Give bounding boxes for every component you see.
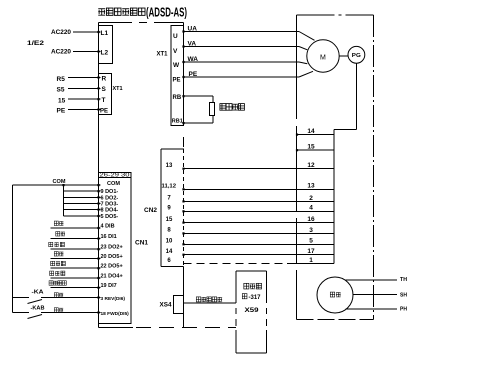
svg-text:S: S: [102, 86, 107, 93]
svg-text:W: W: [173, 62, 180, 69]
svg-text:AC220: AC220: [51, 29, 71, 36]
svg-text:PE: PE: [173, 78, 181, 84]
svg-text:1: 1: [309, 257, 313, 264]
svg-text:4: 4: [309, 205, 313, 212]
svg-text:13: 13: [307, 183, 315, 190]
svg-text:15: 15: [166, 217, 173, 223]
svg-text:3: 3: [309, 227, 313, 234]
svg-text:XT1: XT1: [157, 52, 169, 58]
svg-text:L1: L1: [101, 30, 109, 37]
svg-text:-KA: -KA: [32, 290, 44, 296]
svg-text:PG: PG: [352, 53, 361, 59]
svg-text:PE: PE: [57, 108, 66, 115]
svg-text:XS4: XS4: [160, 303, 173, 309]
svg-text:11,12: 11,12: [162, 184, 177, 190]
svg-text:R5: R5: [57, 76, 66, 83]
svg-text:7 DO3-: 7 DO3-: [101, 202, 119, 208]
svg-text:19 DI7: 19 DI7: [101, 283, 117, 289]
svg-text:L2: L2: [101, 50, 109, 57]
svg-text:16: 16: [307, 216, 315, 223]
svg-text:3 REV(DI6): 3 REV(DI6): [101, 296, 126, 302]
svg-text:X59: X59: [245, 307, 259, 314]
svg-text:2: 2: [309, 195, 313, 202]
svg-text:13: 13: [166, 163, 173, 169]
svg-text:CN1: CN1: [135, 241, 149, 247]
svg-text:UA: UA: [188, 26, 198, 33]
svg-text:U: U: [173, 33, 178, 40]
svg-text:-KAB: -KAB: [31, 306, 45, 312]
svg-text:PE: PE: [100, 109, 108, 115]
svg-text:PH: PH: [400, 307, 407, 313]
svg-text:CN2: CN2: [144, 208, 158, 214]
svg-text:S5: S5: [57, 87, 65, 94]
svg-text:M: M: [320, 55, 326, 62]
svg-text:-317: -317: [249, 295, 262, 301]
svg-text:10: 10: [166, 239, 173, 245]
svg-text:15: 15: [307, 144, 315, 151]
svg-text:18 FWD(DI5): 18 FWD(DI5): [101, 311, 130, 317]
svg-text:PE: PE: [189, 71, 198, 78]
svg-text:16 DI1: 16 DI1: [101, 234, 117, 240]
svg-text:1/E2: 1/E2: [27, 40, 44, 47]
svg-text:(ADSD-AS): (ADSD-AS): [146, 5, 187, 20]
svg-text:12: 12: [307, 162, 315, 169]
svg-text:23 DO2+: 23 DO2+: [101, 245, 123, 251]
svg-text:AC220: AC220: [51, 49, 71, 56]
svg-text:26-29 30: 26-29 30: [100, 173, 130, 179]
svg-text:17: 17: [307, 248, 315, 255]
svg-text:9 DO1-: 9 DO1-: [101, 189, 119, 195]
svg-text:14: 14: [166, 249, 173, 255]
svg-text:20 DO5+: 20 DO5+: [101, 254, 123, 260]
svg-text:4 DIB: 4 DIB: [101, 223, 115, 229]
svg-text:8 DO4-: 8 DO4-: [101, 208, 119, 214]
svg-text:22 DO5+: 22 DO5+: [101, 264, 123, 270]
svg-text:XT1: XT1: [113, 86, 123, 92]
svg-text:5 DO5-: 5 DO5-: [101, 214, 119, 220]
svg-text:6 DO2-: 6 DO2-: [101, 195, 119, 201]
svg-text:COM: COM: [53, 179, 66, 185]
svg-text:V: V: [173, 48, 178, 55]
svg-text:5: 5: [309, 238, 313, 245]
svg-text:WA: WA: [188, 56, 199, 63]
svg-text:RB: RB: [173, 95, 182, 101]
svg-text:R: R: [102, 76, 107, 83]
svg-text:14: 14: [307, 128, 315, 135]
svg-text:21 DO4+: 21 DO4+: [101, 273, 123, 279]
svg-text:T: T: [102, 97, 106, 104]
svg-text:TH: TH: [400, 277, 407, 283]
svg-text:RB1: RB1: [172, 119, 183, 125]
svg-text:COM: COM: [107, 181, 120, 187]
svg-text:15: 15: [58, 98, 66, 105]
svg-text:VA: VA: [188, 41, 197, 48]
svg-text:SH: SH: [400, 293, 407, 299]
